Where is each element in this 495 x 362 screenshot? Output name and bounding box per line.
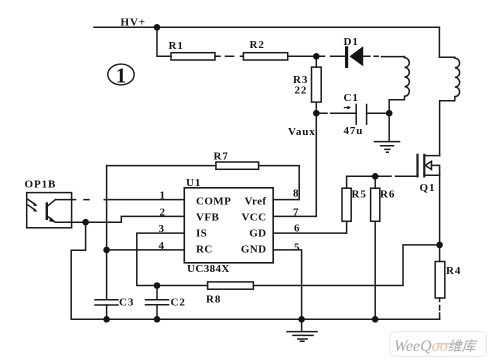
wire pin1 COMP to opto (dash-dot) [56, 199, 185, 201]
svg-text:1: 1 [116, 64, 127, 88]
node bottom R6 [372, 316, 379, 323]
watermark strike line [437, 343, 463, 345]
wire R7 right to Vref [259, 166, 300, 200]
wire Vaux node to C1 (dashed) [316, 112, 356, 114]
node RC rail [103, 247, 110, 254]
node bottom ground [298, 316, 305, 323]
svg-text:8: 8 [293, 188, 299, 200]
svg-text:6: 6 [294, 223, 300, 235]
wire R5 top stub [346, 176, 348, 188]
svg-text:D1: D1 [344, 36, 359, 48]
capacitor C1 plate left [355, 105, 357, 125]
svg-text:2: 2 [160, 206, 166, 218]
wire Q1 source down [439, 175, 441, 245]
svg-text:C1: C1 [344, 92, 359, 104]
svg-text:GND: GND [241, 243, 267, 255]
resistor R2 [243, 53, 287, 60]
wire dash-dot R1 to R2 [215, 55, 243, 57]
opto emitter arrowhead [49, 217, 56, 222]
svg-text:R2: R2 [250, 39, 265, 51]
resistor R6 [371, 188, 380, 221]
resistor R1 [171, 53, 215, 60]
svg-text:R1: R1 [169, 40, 184, 52]
svg-text:UC384X: UC384X [187, 263, 230, 275]
svg-text:47u: 47u [344, 125, 364, 137]
polarity arrow C1 [344, 106, 351, 110]
svg-text:R4: R4 [446, 265, 461, 277]
svg-text:RC: RC [196, 243, 213, 255]
svg-text:4: 4 [159, 240, 165, 252]
node IS / C2 [154, 282, 161, 289]
svg-text:R5: R5 [352, 188, 367, 200]
wire gate line [347, 175, 418, 177]
wire R6 top stub [374, 176, 376, 188]
svg-text:3: 3 [159, 223, 165, 235]
wire pin6 GD [273, 232, 346, 234]
node gate/R6 [372, 173, 379, 180]
node bottom C2 [154, 316, 161, 323]
svg-text:Vaux: Vaux [288, 126, 316, 138]
opto phototransistor [46, 204, 48, 219]
watermark box [390, 332, 486, 356]
wire pin3 IS [137, 233, 208, 285]
wire R3 top stub [315, 56, 317, 67]
opto light arrows [28, 199, 36, 210]
svg-text:7: 7 [293, 206, 299, 218]
diode D1 cathode bar [345, 46, 348, 68]
resistor R8 [208, 282, 254, 289]
wire R7 rail left vertical [106, 166, 108, 300]
wire node to D1 (dashed) [316, 55, 345, 57]
wire pin4 RC [107, 249, 185, 251]
wire HV+ top rail [94, 26, 439, 28]
transformer T1 primary winding [439, 27, 459, 155]
wire HV+ drop to R1 [157, 27, 171, 56]
node HV+ junction [154, 24, 161, 31]
svg-text:VFB: VFB [196, 212, 219, 224]
capacitor C2 plates [146, 300, 169, 305]
wire Vaux to VCC pin7 [273, 113, 316, 216]
transistor Q1 MOSFET [416, 155, 418, 177]
circled number 1 [108, 64, 134, 85]
wire R3 bottom stub [315, 102, 317, 113]
capacitor C1 plate right [366, 105, 368, 125]
wire R7 left [107, 165, 216, 167]
node Vaux [313, 110, 320, 117]
svg-text:GD: GD [249, 227, 266, 239]
svg-text:COMP: COMP [196, 195, 231, 207]
wire C2 top stub [156, 286, 158, 300]
node R2/R3/D1 [313, 53, 320, 60]
svg-text:C2: C2 [171, 297, 186, 309]
svg-text:Q1: Q1 [420, 182, 436, 194]
IC U1 box [184, 188, 273, 263]
svg-text:C3: C3 [119, 297, 134, 309]
diode D1 triangle [350, 46, 364, 66]
wire R4 bottom stub (dash-dot) [439, 298, 441, 319]
wire C1 to aux node [367, 112, 390, 114]
wire C2 bottom stub [156, 305, 158, 320]
node Q1 source / R4 [436, 242, 443, 249]
resistor R7 [216, 162, 259, 169]
svg-text:R6: R6 [380, 188, 395, 200]
svg-text:1: 1 [160, 190, 166, 202]
wire emitter branch down [71, 222, 85, 319]
wire R2 to node [288, 55, 317, 57]
svg-text:HV+: HV+ [121, 17, 146, 29]
capacitor C3 plates [95, 300, 118, 305]
svg-text:Vref: Vref [245, 195, 267, 207]
wire IS sense line to R4 top [253, 245, 439, 286]
node aux/C1/ground [386, 110, 393, 117]
svg-text:5: 5 [294, 242, 300, 254]
wire C3 bottom stub [106, 305, 108, 319]
node bottom C3 [103, 316, 110, 323]
wire bottom rail [71, 318, 439, 320]
wire R5 bottom stub [346, 221, 348, 233]
ground G2 [287, 319, 317, 341]
wire aux node down to ground [388, 113, 390, 141]
svg-text:IS: IS [196, 227, 207, 239]
svg-text:OP1B: OP1B [25, 179, 57, 191]
svg-text:WeeQoo维库: WeeQoo维库 [394, 338, 478, 355]
ground G1 [375, 142, 400, 153]
Q1 arrow [425, 161, 431, 169]
wire pin2 VFB [56, 216, 185, 222]
wire D1 to aux winding (dash-dot) [363, 55, 404, 57]
resistor R4 [435, 262, 445, 299]
svg-text:22: 22 [295, 85, 308, 97]
resistor R3 [312, 67, 322, 102]
wire pin5 GND [273, 250, 301, 319]
transformer T1 aux winding [389, 57, 409, 114]
node opto emitter [82, 219, 89, 226]
resistor R5 [342, 188, 351, 221]
svg-text:VCC: VCC [241, 212, 266, 224]
svg-text:U1: U1 [186, 177, 201, 189]
wire R4 top stub [439, 245, 441, 262]
optocoupler OP1B box [27, 193, 72, 228]
wire R6 bottom [374, 221, 376, 319]
svg-text:R8: R8 [206, 294, 221, 306]
svg-text:R7: R7 [214, 151, 229, 163]
